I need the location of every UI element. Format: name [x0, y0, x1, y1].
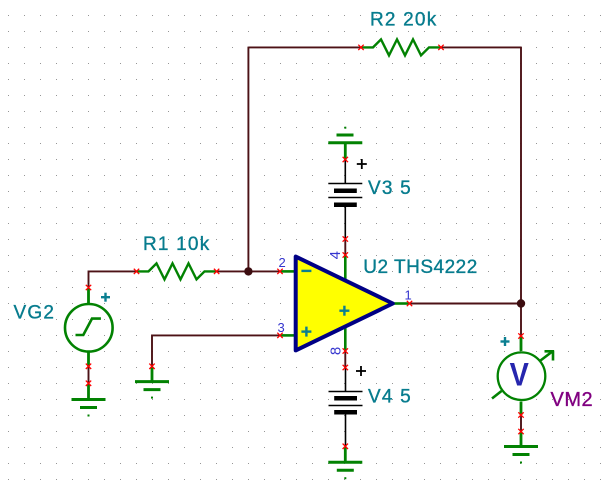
op-amp U2 pin2 stub	[281, 270, 296, 273]
wire output junction to VM2	[520, 304, 522, 337]
svg-text:1: 1	[405, 288, 412, 303]
svg-text:V3 5: V3 5	[368, 178, 412, 199]
junction output node	[517, 299, 525, 307]
svg-text:VM2: VM2	[551, 389, 594, 411]
wire VM2 bottom to ground	[520, 415, 522, 432]
battery V4	[329, 368, 363, 447]
ground below V4	[344, 447, 347, 462]
op-amp U2 pin1 stub	[394, 302, 410, 305]
wire feedback right vertical	[520, 47, 522, 304]
resistor R1	[137, 263, 217, 279]
op-amp U2 pin4 stub	[344, 255, 347, 282]
plus sign V4	[356, 366, 366, 376]
wire feedback left vertical	[247, 47, 249, 272]
wire pin1 output	[410, 303, 522, 305]
ground below VG2	[87, 384, 90, 400]
ground at pin3	[151, 367, 154, 382]
svg-text:V: V	[510, 357, 530, 393]
op-amp minus input mark	[301, 270, 311, 272]
svg-text:VG2: VG2	[14, 303, 56, 324]
battery V3	[328, 160, 362, 240]
wire feedback top-left segment	[248, 46, 361, 48]
op-amp U1 triangle	[296, 257, 393, 351]
op-amp plus middle mark	[339, 306, 349, 316]
wire feedback top-right segment	[441, 46, 521, 48]
wire VG2 to R1	[89, 271, 137, 287]
svg-text:4: 4	[327, 251, 344, 259]
wire pin3 to ground	[152, 335, 280, 366]
ground below VM2	[520, 432, 523, 446]
svg-text:R2 20k: R2 20k	[370, 9, 437, 30]
op-amp plus input mark	[301, 327, 311, 337]
svg-text:R1 10k: R1 10k	[143, 234, 210, 255]
wire V3 bottom to pin4	[344, 239, 346, 255]
op-amp U2 pin8 stub	[344, 326, 347, 351]
flipped ground above V3	[328, 127, 362, 160]
svg-text:V4 5: V4 5	[368, 387, 412, 408]
svg-text:8: 8	[327, 347, 344, 355]
wire pin8 to V4 top	[344, 351, 346, 368]
op-amp U2 pin3 stub	[281, 334, 296, 337]
voltmeter VM2	[492, 336, 554, 415]
plus sign VG2	[101, 293, 110, 302]
svg-text:3: 3	[278, 320, 285, 335]
plus sign V3	[357, 159, 367, 169]
svg-text:2: 2	[279, 255, 286, 270]
plus sign VM2	[501, 337, 510, 346]
wire VG2 bottom to ground	[88, 366, 90, 383]
resistor R2	[361, 39, 441, 55]
wire R1 to pin2	[217, 270, 280, 272]
source VG2	[65, 288, 113, 366]
junction input node	[244, 267, 252, 275]
terminal X marks	[358, 45, 363, 50]
svg-text:U2 THS4222: U2 THS4222	[363, 257, 478, 278]
